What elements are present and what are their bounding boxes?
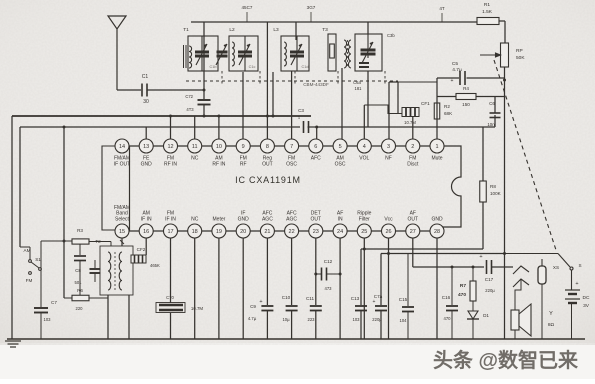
wire C11 to ground xyxy=(315,311,317,340)
pin 24 (AF IN) xyxy=(333,211,347,238)
svg-text:50K: 50K xyxy=(516,55,525,61)
wire pin 2 stub to CF1 xyxy=(412,117,414,139)
svg-text:25: 25 xyxy=(361,229,367,235)
wire C10 to ground xyxy=(291,311,293,340)
wire AFC bus to R8 xyxy=(482,127,484,181)
svg-text:RF IN: RF IN xyxy=(164,162,177,168)
svg-text:VOL: VOL xyxy=(359,156,369,162)
wire pin 16 stub to CF2 xyxy=(145,238,147,255)
svg-text:OSC: OSC xyxy=(335,162,346,168)
wire R8 to AF feedback xyxy=(482,202,484,249)
svg-text:3: 3 xyxy=(387,144,390,150)
svg-text:4: 4 xyxy=(363,144,366,150)
junction left vertical on AFC bus xyxy=(63,126,66,129)
antenna E1 xyxy=(108,16,126,90)
wire AF feedback (C13 to R8) xyxy=(361,248,483,250)
svg-text:C1c: C1c xyxy=(249,65,256,69)
svg-text:10µ: 10µ xyxy=(282,317,290,322)
svg-text:6: 6 xyxy=(314,144,317,150)
capacitor (T2 resonator) xyxy=(90,269,101,273)
svg-text:16: 16 xyxy=(143,229,149,235)
wire pin 17 to CF3 xyxy=(170,238,172,303)
wire pin 10 stub xyxy=(218,116,220,139)
junction C72/AM bus xyxy=(203,115,206,118)
wiper arrow into RP from pin 4 xyxy=(480,53,501,57)
pin 11 (NC) xyxy=(188,139,202,162)
svg-text:2: 2 xyxy=(411,144,414,150)
svg-text:C11: C11 xyxy=(306,296,315,301)
svg-text:R7: R7 xyxy=(460,283,466,289)
svg-text:IC CXA1191M: IC CXA1191M xyxy=(235,175,301,185)
svg-text:5: 5 xyxy=(339,144,342,150)
junction RP bottom node xyxy=(503,79,506,82)
svg-text:NC: NC xyxy=(191,156,199,162)
svg-text:Disct: Disct xyxy=(407,162,419,168)
wire pin 6 stub xyxy=(316,127,318,139)
dashed mechanical link RP to switch S xyxy=(494,60,556,250)
pin 8 (Reg OUT) xyxy=(260,139,274,168)
variable capacitor C1b (between sections) xyxy=(216,44,228,65)
svg-text:470: 470 xyxy=(458,292,466,298)
pin 5 (AM OSC) xyxy=(333,139,347,168)
wire pin 11 stub xyxy=(194,116,196,139)
wire pin 4 to CF1 (staircase) xyxy=(364,105,402,114)
wire top bus xyxy=(191,21,477,23)
wire pin 28 GND to ground bus xyxy=(436,238,438,339)
svg-text:RF IN: RF IN xyxy=(212,162,225,168)
svg-text:L3: L3 xyxy=(273,27,279,33)
pin 18 (NC) xyxy=(188,217,202,239)
svg-text:104: 104 xyxy=(400,318,408,323)
resistor R5 (osc) in narrow box xyxy=(328,34,336,71)
wire battery to ground xyxy=(571,303,573,339)
svg-text:R1: R1 xyxy=(484,2,490,8)
wire CF3 to ground xyxy=(170,313,172,339)
svg-text:20: 20 xyxy=(240,229,246,235)
wire C17 to jack xyxy=(492,266,514,268)
pin 17 (FM IF IN) xyxy=(164,211,178,238)
svg-text:3G7: 3G7 xyxy=(307,5,316,10)
svg-text:10.7M: 10.7M xyxy=(404,120,416,125)
svg-text:9: 9 xyxy=(242,144,245,150)
wire V+ column down to ground bus xyxy=(504,254,506,340)
svg-text:473: 473 xyxy=(325,286,333,291)
svg-text:NC: NC xyxy=(191,217,199,223)
wire top bus to osc section xyxy=(367,22,369,34)
svg-text:T2: T2 xyxy=(95,239,101,244)
transformer T3 windings xyxy=(344,40,347,68)
wire left edge vertical xyxy=(11,116,13,339)
wire R3 row xyxy=(41,240,72,242)
capacitor C7 103 xyxy=(34,308,48,313)
svg-text:IF OUT: IF OUT xyxy=(114,162,130,168)
svg-text:Filter: Filter xyxy=(359,217,370,223)
wire C14 to ground xyxy=(380,311,382,340)
wire jack sleeve to ground xyxy=(541,284,543,339)
svg-text:AGC: AGC xyxy=(286,217,297,223)
svg-text:DC: DC xyxy=(583,295,590,301)
wire down to CF1 xyxy=(397,82,399,114)
tuning gang dashed link xyxy=(186,80,398,82)
svg-text:R4: R4 xyxy=(463,86,469,91)
wire pin 14 to pin 15 bracket xyxy=(102,146,115,230)
tuning gang section separators xyxy=(221,71,223,85)
svg-text:150: 150 xyxy=(462,102,470,107)
svg-text:10.7M: 10.7M xyxy=(191,306,204,311)
wire to R4 xyxy=(437,96,456,98)
wire down to C14 xyxy=(380,254,382,306)
wire down to C13 xyxy=(360,249,362,305)
capacitor C14 220u (electrolytic) xyxy=(375,306,387,311)
wire to C6 xyxy=(494,97,496,114)
svg-text:CBM-443DF: CBM-443DF xyxy=(303,82,329,87)
svg-text:+: + xyxy=(575,281,578,287)
svg-text:26: 26 xyxy=(385,229,391,235)
wire T3 down to pin 5 xyxy=(341,68,343,139)
svg-text:C1d: C1d xyxy=(302,65,309,69)
power switch S xyxy=(558,254,573,271)
pin 23 (DET OUT) xyxy=(309,211,323,238)
svg-text:L2: L2 xyxy=(229,27,235,33)
wire AM bus (thick) xyxy=(12,115,311,117)
svg-text:4T: 4T xyxy=(439,6,445,11)
svg-text:OUT: OUT xyxy=(311,217,322,223)
svg-text:465K: 465K xyxy=(150,263,160,268)
pin 6 (AFC) xyxy=(309,139,323,162)
wire to C15 xyxy=(407,254,409,307)
wire T2 right leg to ground xyxy=(128,295,130,339)
wire right vertical V+ to output node xyxy=(504,80,506,253)
wire C9 to ground xyxy=(266,311,268,340)
svg-text:R3: R3 xyxy=(77,228,83,233)
svg-text:12: 12 xyxy=(167,144,173,150)
capacitor C12 473 xyxy=(316,273,321,275)
svg-text:8Ω: 8Ω xyxy=(548,322,555,328)
svg-text:4.7µ: 4.7µ xyxy=(248,316,257,321)
wire to R7 xyxy=(472,267,474,281)
wire antenna to C1 xyxy=(117,89,141,91)
svg-text:GND: GND xyxy=(431,217,443,223)
wire R2 top xyxy=(436,97,438,104)
wire R6 to T2 xyxy=(89,297,108,299)
svg-text:223: 223 xyxy=(308,317,316,322)
svg-text:GND: GND xyxy=(141,162,153,168)
svg-text:+: + xyxy=(259,299,262,305)
svg-text:23: 23 xyxy=(313,229,319,235)
svg-text:15: 15 xyxy=(119,229,125,235)
pin 22 (AFC AGC) xyxy=(285,211,299,238)
capacitor C11 223 xyxy=(310,306,322,311)
wire pin 4 stub xyxy=(363,105,365,139)
svg-text:C1b: C1b xyxy=(210,65,217,69)
wire C5 to RP bottom node xyxy=(467,77,505,79)
pin 27 (AF OUT) xyxy=(406,211,420,238)
svg-text:C6a: C6a xyxy=(353,80,361,85)
wire pin 19 to ground xyxy=(218,238,220,339)
svg-text:C1: C1 xyxy=(142,74,149,80)
wire pin 15 stub to T2 xyxy=(121,238,123,246)
wire Vcc rail to switch xyxy=(381,253,505,255)
wire AFC bus right of C3 xyxy=(308,126,496,128)
battery GB 3V xyxy=(565,290,580,303)
svg-text:7: 7 xyxy=(290,144,293,150)
junction R3 row xyxy=(63,240,66,243)
svg-text:C3b: C3b xyxy=(387,33,395,38)
scan vignette xyxy=(0,0,1,1)
wire pin 13 stub xyxy=(145,127,147,139)
svg-text:C7: C7 xyxy=(51,300,57,305)
svg-text:30: 30 xyxy=(143,99,149,105)
wire pin 3 stub xyxy=(388,82,390,139)
capacitor C72 / 4T3 xyxy=(198,100,211,105)
wire gang down to AM bus xyxy=(272,72,274,116)
pin 14 (FM/AM IF OUT) xyxy=(114,139,130,168)
pin 20 (IF GND) xyxy=(236,211,250,238)
svg-text:NF: NF xyxy=(385,156,392,162)
svg-text:FM: FM xyxy=(26,278,33,283)
svg-text:OSC: OSC xyxy=(286,162,297,168)
svg-text:XS: XS xyxy=(553,265,559,270)
wire pin 1 stub xyxy=(436,78,438,139)
svg-text:T1: T1 xyxy=(183,27,189,33)
ceramic filter CF3 10.7M xyxy=(156,303,185,313)
wire R4 to right vertical xyxy=(476,96,505,98)
wire section2 down to pin 9 xyxy=(242,72,244,139)
resistor R3 xyxy=(72,239,89,244)
svg-text:IF IN: IF IN xyxy=(141,217,152,223)
svg-text:CF1: CF1 xyxy=(421,101,430,106)
wire C72 to AM bus xyxy=(203,105,205,117)
svg-text:24: 24 xyxy=(337,229,343,235)
svg-text:C70: C70 xyxy=(166,295,174,300)
svg-text:11: 11 xyxy=(192,144,198,150)
variable capacitor C3b xyxy=(361,34,376,63)
wire jack to speaker xyxy=(515,279,521,310)
wire top bus down to L3 box xyxy=(295,22,297,40)
svg-text:3V: 3V xyxy=(583,303,590,309)
svg-text:C12: C12 xyxy=(324,259,333,264)
svg-text:10n: 10n xyxy=(487,122,495,127)
capacitor C6 10n xyxy=(490,113,501,118)
wire pin 23 to C11 xyxy=(315,238,317,305)
wire pin 24 to ground xyxy=(339,238,341,339)
capacitor C13 103 xyxy=(355,306,367,311)
svg-text:AFC: AFC xyxy=(311,156,321,162)
pin 28 (GND) xyxy=(430,217,444,239)
wire osc section down xyxy=(367,71,369,127)
junction pin25/AF feedback xyxy=(363,248,366,251)
svg-text:OUT: OUT xyxy=(262,162,273,168)
svg-text:220µ: 220µ xyxy=(485,288,495,293)
wire pin1 node to C5 xyxy=(437,77,459,79)
junction pin6 on AFC bus xyxy=(315,126,318,129)
svg-text:13: 13 xyxy=(143,144,149,150)
variable capacitor C1a xyxy=(195,36,209,71)
capacitor C6a 181 xyxy=(359,63,369,67)
T2 core xyxy=(114,252,116,290)
wire ground bus xyxy=(7,338,585,340)
svg-text:21: 21 xyxy=(264,229,270,235)
wire pin 27 down xyxy=(412,238,414,267)
wire pin3 node xyxy=(389,81,398,83)
svg-text:C13: C13 xyxy=(351,296,360,301)
svg-text:C3: C3 xyxy=(298,108,304,113)
junction C12 left xyxy=(314,273,317,276)
pin 3 (NF) xyxy=(382,139,396,162)
resistor R1 xyxy=(477,18,499,25)
wire pin 25 to ground xyxy=(363,238,365,339)
svg-text:27: 27 xyxy=(410,229,416,235)
wire Vcc rail to switch S xyxy=(505,253,558,255)
band switch S1 (AM/FM) xyxy=(29,260,42,275)
wire left vertical to R6 xyxy=(63,127,65,298)
svg-text:C5: C5 xyxy=(452,61,458,67)
svg-text:220: 220 xyxy=(76,306,84,311)
svg-text:D1: D1 xyxy=(483,313,489,318)
wire RP bottom xyxy=(504,67,506,80)
svg-text:181: 181 xyxy=(355,86,363,91)
pin 2 (FM Disct) xyxy=(406,139,420,168)
pin 19 (Meter) xyxy=(212,217,226,239)
svg-text:Meter: Meter xyxy=(213,217,226,223)
wire pin 21 to C9 xyxy=(266,238,268,305)
resistor R4 150 xyxy=(456,94,476,100)
svg-text:C16: C16 xyxy=(442,295,451,300)
svg-text:IN: IN xyxy=(338,217,343,223)
svg-text:4T3: 4T3 xyxy=(186,107,194,112)
junction C1 wire / gang column xyxy=(203,89,206,92)
svg-text:R2: R2 xyxy=(444,104,450,109)
wire C13 to ground xyxy=(360,311,362,340)
speaker Y 8ohm xyxy=(511,304,531,336)
wire pin 12 stub xyxy=(170,116,172,139)
svg-text:103: 103 xyxy=(44,317,52,322)
pin 21 (AFC AGC) xyxy=(260,211,274,238)
svg-text:4.7µ: 4.7µ xyxy=(452,67,462,73)
diode D1 xyxy=(468,311,478,319)
svg-text:C9: C9 xyxy=(250,304,256,309)
IF transformer T2 (dashed box) xyxy=(100,246,133,295)
junction C12 right xyxy=(339,273,342,276)
earphone jack XS xyxy=(513,259,546,287)
pin 9 (FM RF) xyxy=(236,139,250,168)
svg-text:14: 14 xyxy=(119,144,125,150)
pin 13 (FE GND) xyxy=(139,139,153,168)
wire C12 to pin 24 column xyxy=(327,273,340,275)
potentiometer RP 50K xyxy=(501,43,509,67)
wire C6 to AFC bus xyxy=(494,115,496,127)
svg-text:CF2: CF2 xyxy=(137,247,146,252)
svg-text:470: 470 xyxy=(444,316,452,321)
svg-text:C15: C15 xyxy=(399,297,408,302)
svg-text:OUT: OUT xyxy=(408,217,419,223)
wire S1 common down to C7 xyxy=(40,241,42,307)
svg-text:+: + xyxy=(479,254,482,260)
svg-text:Select: Select xyxy=(115,217,130,223)
capacitor C10 10u xyxy=(286,306,298,311)
svg-text:S1: S1 xyxy=(35,257,41,262)
wire second left vertical xyxy=(19,127,21,247)
svg-text:C6: C6 xyxy=(489,101,495,106)
tuning section box 1 (T1 / FM RF) xyxy=(188,36,218,71)
wire pin 7 to L3 section xyxy=(291,71,293,139)
ceramic filter CF2 465K xyxy=(131,255,146,263)
svg-text:103: 103 xyxy=(353,317,361,322)
wire D1 to ground xyxy=(472,319,474,339)
wire pin 22 to C10 xyxy=(291,238,293,305)
capacitor C15 104 xyxy=(402,307,414,312)
svg-text:C72: C72 xyxy=(185,94,193,99)
svg-text:S: S xyxy=(578,263,581,268)
svg-text:28: 28 xyxy=(434,229,440,235)
svg-text:RF: RF xyxy=(240,162,247,168)
wire pin 18 to ground xyxy=(194,238,196,339)
resistor R8 100K xyxy=(480,181,487,202)
variable capacitor C1c xyxy=(238,36,252,71)
svg-text:1.5K: 1.5K xyxy=(482,9,493,15)
wire C1 to tuning gang xyxy=(148,89,205,91)
ceramic filter CF1 10.7M xyxy=(402,108,419,117)
svg-text:22: 22 xyxy=(289,229,295,235)
pin 26 (Vcc) xyxy=(382,217,396,239)
wire pin 8 to top bus xyxy=(266,22,268,139)
svg-text:R8: R8 xyxy=(490,184,496,189)
resistor R2 68K xyxy=(434,103,440,119)
svg-text:头条 @数智已来: 头条 @数智已来 xyxy=(433,348,579,372)
wire C15 to ground xyxy=(407,312,409,340)
wire AFC bus left of C3 xyxy=(20,126,300,128)
wire R3 to T2 column xyxy=(89,241,111,243)
svg-text:19: 19 xyxy=(216,229,222,235)
wire pin 26 to ground rail xyxy=(388,238,390,339)
svg-text:8: 8 xyxy=(266,144,269,150)
pin 25 (Ripple Filter) xyxy=(357,211,371,238)
pin 7 (FM OSC) xyxy=(285,139,299,168)
svg-text:T3: T3 xyxy=(322,27,328,33)
wire down to RP xyxy=(504,21,506,43)
svg-text:GND: GND xyxy=(238,217,250,223)
IC U1 CXA1191M body outline xyxy=(130,146,462,231)
svg-text:+: + xyxy=(373,299,376,305)
wire R1 to corner xyxy=(499,20,505,22)
capacitor C5 4.7u xyxy=(460,71,465,85)
junction Vcc xyxy=(387,252,390,255)
wire S1 AM contact up xyxy=(29,247,31,260)
wire top bus down through section1 to C72 xyxy=(203,22,205,99)
svg-text:17: 17 xyxy=(167,229,173,235)
svg-text:68K: 68K xyxy=(444,111,453,116)
junction V+ node xyxy=(503,252,506,255)
wire pin 20 to ground xyxy=(242,238,244,339)
capacitor C9 4.7u (electrolytic) xyxy=(261,306,273,311)
svg-text:1: 1 xyxy=(435,144,438,150)
svg-text:10: 10 xyxy=(216,144,222,150)
capacitor C3 xyxy=(304,121,309,133)
capacitor C17 220u (electrolytic) xyxy=(487,260,492,274)
svg-text:18: 18 xyxy=(192,229,198,235)
wire speaker to ground xyxy=(514,330,516,339)
wire C16 to ground xyxy=(451,311,453,340)
capacitor C8 501 xyxy=(79,244,81,255)
svg-text:Vcc: Vcc xyxy=(384,217,393,223)
tuning section box 4 (C3b osc) xyxy=(355,34,382,71)
capacitor C1 xyxy=(142,84,147,97)
ground symbol xyxy=(5,341,21,347)
svg-text:R6: R6 xyxy=(77,288,83,293)
svg-text:AGC: AGC xyxy=(262,217,273,223)
wire T2 left leg to ground xyxy=(107,295,109,339)
variable capacitor C1d xyxy=(290,36,304,71)
